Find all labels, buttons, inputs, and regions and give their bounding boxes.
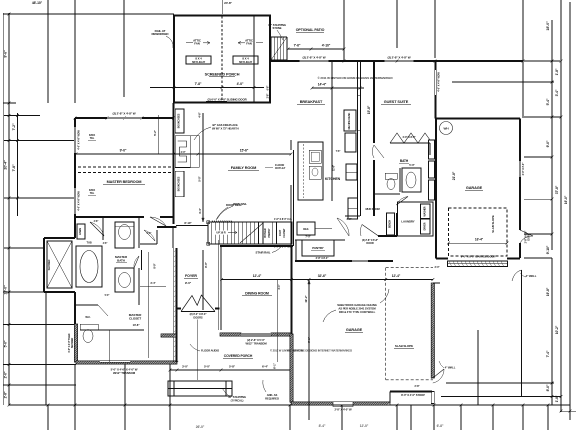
- svg-text:7'-6": 7'-6": [294, 44, 301, 48]
- svg-text:3'-4": 3'-4": [555, 89, 559, 96]
- svg-text:15'-8": 15'-8": [367, 105, 371, 114]
- svg-text:4'-0" X 4'-8" WDW: 4'-0" X 4'-8" WDW: [78, 130, 81, 150]
- svg-text:37'-8": 37'-8": [555, 185, 559, 194]
- svg-text:(2) 6'-0" X 6'-8" SLIDING DOOR: (2) 6'-0" X 6'-8" SLIDING DOOR: [207, 97, 247, 101]
- svg-text:4'-6": 4'-6": [198, 111, 202, 117]
- svg-text:PANTRY: PANTRY: [268, 228, 271, 237]
- svg-text:BATH: BATH: [117, 259, 125, 263]
- svg-text:© 2011 W LINTHICUM HOME DESIGN: © 2011 W LINTHICUM HOME DESIGNS INTERNET…: [270, 349, 352, 353]
- svg-text:DRYER: DRYER: [423, 222, 426, 230]
- svg-text:10'-0": 10'-0": [4, 285, 8, 295]
- svg-text:9'-1": 9'-1": [307, 336, 311, 342]
- svg-text:BOOKCASES: BOOKCASES: [178, 176, 181, 191]
- svg-text:2'-8" X 8'-0": 2'-8" X 8'-0": [316, 257, 330, 260]
- svg-text:26'-0": 26'-0": [196, 425, 205, 429]
- svg-text:4" WALL: 4" WALL: [445, 366, 456, 370]
- svg-text:15'-6": 15'-6": [240, 149, 249, 153]
- svg-text:3'-4": 3'-4": [150, 281, 156, 285]
- svg-text:REWORKED: REWORKED: [151, 32, 169, 36]
- svg-text:19'-2": 19'-2": [304, 295, 308, 303]
- svg-text:9'-0": 9'-0": [120, 149, 127, 153]
- svg-text:W/ 60" X 72" HEARTH: W/ 60" X 72" HEARTH: [212, 127, 239, 131]
- svg-text:SKYLIGHT: SKYLIGHT: [192, 60, 206, 64]
- svg-text:LINEN: LINEN: [79, 228, 82, 235]
- svg-text:BATH: BATH: [400, 159, 409, 163]
- svg-text:18'-0": 18'-0": [546, 21, 550, 31]
- svg-text:12'-4": 12'-4": [392, 274, 401, 278]
- svg-text:BOOKCASES: BOOKCASES: [178, 113, 181, 128]
- svg-text:13'-8": 13'-8": [133, 323, 141, 327]
- svg-text:4'-6": 4'-6": [103, 242, 108, 245]
- svg-text:(TYPICAL): (TYPICAL): [231, 398, 244, 402]
- svg-text:6'-1": 6'-1": [273, 362, 277, 368]
- svg-text:5'-8": 5'-8": [229, 365, 236, 369]
- svg-text:2'-8" X 4'-0" W: 2'-8" X 4'-0" W: [334, 408, 352, 412]
- svg-text:8'-9": 8'-9": [153, 263, 157, 269]
- svg-text:8'-0" X 4'-0" STOOP: 8'-0" X 4'-0" STOOP: [401, 393, 425, 397]
- svg-text:TEL: TEL: [90, 137, 95, 140]
- svg-text:KITCHEN: KITCHEN: [325, 177, 341, 181]
- svg-text:(2) 3'-0" X 8'-0": (2) 3'-0" X 8'-0": [190, 312, 208, 316]
- svg-text:MUD ROOM: MUD ROOM: [365, 207, 380, 211]
- svg-text:COVERED PORCH: COVERED PORCH: [224, 354, 253, 358]
- svg-text:9'-0": 9'-0": [546, 140, 550, 147]
- svg-text:6'-4": 6'-4": [262, 365, 269, 369]
- svg-text:7'-0": 7'-0": [305, 235, 311, 239]
- svg-text:16'-0": 16'-0": [564, 195, 568, 204]
- svg-text:9'-6": 9'-6": [4, 50, 8, 58]
- svg-text:OUTLET: OUTLET: [275, 166, 286, 170]
- svg-text:24'-8": 24'-8": [224, 1, 232, 5]
- svg-text:WASHER: WASHER: [423, 206, 426, 216]
- svg-text:SHEETROCK GARAGE CEILING: SHEETROCK GARAGE CEILING: [337, 303, 377, 307]
- svg-text:20'-4": 20'-4": [4, 160, 8, 170]
- svg-text:6'-8": 6'-8": [267, 86, 270, 91]
- svg-text:2'-8": 2'-8": [267, 94, 270, 99]
- svg-text:R30 & ZTC TYPE X DRYWALL: R30 & ZTC TYPE X DRYWALL: [339, 310, 376, 314]
- svg-text:6'-8": 6'-8": [437, 424, 444, 428]
- svg-text:FAN: FAN: [246, 42, 251, 46]
- svg-text:W.C.: W.C.: [85, 315, 91, 319]
- svg-text:9'-0": 9'-0": [204, 261, 208, 267]
- svg-text:9'-10": 9'-10": [546, 245, 550, 254]
- svg-text:PANTRY: PANTRY: [312, 246, 323, 250]
- svg-text:FAN: FAN: [194, 42, 199, 46]
- svg-text:SHOWER: SHOWER: [48, 259, 51, 270]
- svg-text:IRON RAIL: IRON RAIL: [233, 202, 247, 206]
- svg-text:W/12" TRANSOM: W/12" TRANSOM: [113, 371, 136, 375]
- svg-text:W/12" TRANSOM: W/12" TRANSOM: [245, 341, 267, 345]
- svg-text:5'-4": 5'-4": [546, 98, 550, 105]
- svg-text:WH: WH: [444, 127, 450, 131]
- svg-text:8'-10": 8'-10": [184, 221, 192, 225]
- svg-text:CLOSET: CLOSET: [129, 317, 141, 321]
- svg-text:(2) 2'-8" X 4'-8" W: (2) 2'-8" X 4'-8" W: [388, 56, 411, 60]
- svg-text:(2) 2'-8" X 4'-8" W: (2) 2'-8" X 4'-8" W: [303, 56, 326, 60]
- svg-text:10'-2": 10'-2": [555, 325, 559, 334]
- svg-text:21'-8": 21'-8": [452, 171, 456, 180]
- svg-text:MASTER BEDROOM: MASTER BEDROOM: [107, 180, 142, 184]
- svg-text:REQUIRED: REQUIRED: [265, 396, 279, 400]
- svg-text:2'-8": 2'-8": [4, 391, 8, 398]
- svg-text:7'-8": 7'-8": [195, 82, 202, 86]
- svg-text:7'-2": 7'-2": [12, 123, 16, 130]
- svg-text:DINING ROOM: DINING ROOM: [245, 292, 269, 296]
- svg-text:GUEST SUITE: GUEST SUITE: [384, 100, 409, 104]
- svg-text:DOORS: DOORS: [193, 316, 202, 320]
- svg-text:3'-0": 3'-0": [182, 365, 189, 369]
- svg-text:5'-0": 5'-0": [204, 365, 211, 369]
- svg-text:FAMILY ROOM: FAMILY ROOM: [231, 166, 257, 170]
- svg-text:2'-0": 2'-0": [4, 371, 8, 378]
- svg-text:FOYER: FOYER: [185, 274, 197, 278]
- svg-text:UP 16 R: UP 16 R: [216, 231, 225, 235]
- svg-text:DOOR: DOOR: [366, 242, 373, 245]
- svg-text:4'-0" X 4'-8" WDW: 4'-0" X 4'-8" WDW: [438, 72, 441, 92]
- svg-text:5'-0": 5'-0": [409, 163, 415, 167]
- svg-text:TEL: TEL: [90, 192, 95, 195]
- svg-text:5'-0": 5'-0": [105, 294, 110, 297]
- svg-text:STONE: STONE: [273, 26, 282, 30]
- svg-text:GARAGE: GARAGE: [466, 186, 483, 190]
- svg-text:COAT: COAT: [279, 229, 282, 236]
- svg-text:42" GAS FIREPLACE: 42" GAS FIREPLACE: [212, 123, 238, 127]
- svg-text:4'-10": 4'-10": [322, 44, 331, 48]
- svg-text:FLOOR AUDIO: FLOOR AUDIO: [201, 349, 220, 353]
- svg-text:9'-0" X 8'-0" GARAGE DOOR: 9'-0" X 8'-0" GARAGE DOOR: [461, 255, 496, 259]
- svg-text:48'-10": 48'-10": [32, 1, 43, 5]
- svg-text:7'-6": 7'-6": [336, 150, 341, 153]
- svg-text:SCREENED PORCH: SCREENED PORCH: [205, 73, 240, 77]
- svg-text:12'-0": 12'-0": [360, 424, 369, 428]
- svg-text:© 2011 W LINTHICUM HOME DESIGN: © 2011 W LINTHICUM HOME DESIGNS WATERMAR…: [317, 76, 393, 80]
- svg-text:1'-6" X 8'-0" C.G.: 1'-6" X 8'-0" C.G.: [274, 218, 292, 221]
- svg-text:DOOR: DOOR: [528, 233, 531, 240]
- svg-text:5'-2": 5'-2": [153, 129, 157, 135]
- svg-text:4'-0" X 4'-8" WDW: 4'-0" X 4'-8" WDW: [78, 191, 81, 211]
- svg-text:16'-4": 16'-4": [475, 238, 484, 242]
- svg-text:4'-4": 4'-4": [198, 207, 202, 214]
- svg-text:AS PER NOBLE 2041 SYSTEM: AS PER NOBLE 2041 SYSTEM: [338, 307, 376, 311]
- svg-text:7'-8": 7'-8": [12, 164, 16, 171]
- svg-text:CLOSET: CLOSET: [283, 228, 286, 238]
- svg-text:11'-8": 11'-8": [333, 165, 336, 171]
- svg-text:SLAB SLOPE: SLAB SLOPE: [395, 344, 413, 348]
- svg-text:BENCH: BENCH: [389, 220, 392, 228]
- svg-text:4'-0" X 8'-0": 4'-0" X 8'-0": [402, 135, 416, 139]
- svg-text:TUB: TUB: [86, 241, 91, 245]
- svg-text:(2) 2'-8" X 4'-8" W: (2) 2'-8" X 4'-8" W: [113, 112, 136, 116]
- svg-text:BUTLER: BUTLER: [264, 228, 267, 237]
- svg-text:9'-0": 9'-0": [185, 281, 192, 285]
- svg-text:LAUNDRY: LAUNDRY: [401, 220, 414, 224]
- svg-text:8'-4": 8'-4": [319, 424, 326, 428]
- svg-text:SLAB SLOPE: SLAB SLOPE: [491, 215, 495, 233]
- svg-text:2'-8": 2'-8": [94, 220, 99, 223]
- svg-text:4" WALL: 4" WALL: [526, 274, 537, 278]
- svg-text:OPTIONAL PATIO: OPTIONAL PATIO: [296, 28, 325, 32]
- svg-text:STAIR RAIL: STAIR RAIL: [256, 251, 271, 255]
- svg-text:5'-0": 5'-0": [198, 175, 202, 181]
- svg-text:8'-0": 8'-0": [546, 384, 550, 391]
- svg-text:4'-0": 4'-0": [237, 82, 244, 86]
- svg-text:2'-0": 2'-0": [147, 232, 152, 235]
- svg-text:7'-4": 7'-4": [546, 350, 550, 357]
- svg-text:19'-8": 19'-8": [546, 287, 550, 296]
- svg-text:12'-4": 12'-4": [253, 274, 262, 278]
- svg-text:2'-0" X 3'-0": 2'-0" X 3'-0": [522, 162, 525, 176]
- svg-text:SKYLIGHT: SKYLIGHT: [239, 60, 253, 64]
- svg-text:1'-8": 1'-8": [555, 68, 559, 75]
- svg-text:14'-4": 14'-4": [318, 83, 327, 87]
- svg-text:GARAGE: GARAGE: [346, 328, 363, 332]
- svg-text:SHOWER: SHOWER: [71, 338, 74, 349]
- svg-text:32'-6": 32'-6": [318, 274, 327, 278]
- svg-text:RECIPE DESK: RECIPE DESK: [347, 112, 351, 129]
- svg-text:5'-0": 5'-0": [4, 340, 8, 347]
- svg-text:BREAKFAST: BREAKFAST: [300, 100, 323, 104]
- svg-text:REF.: REF.: [303, 227, 309, 231]
